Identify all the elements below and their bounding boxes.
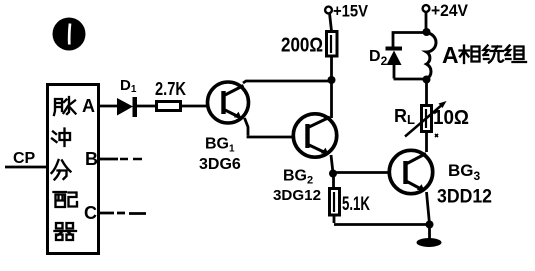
svg-text:B: B	[85, 149, 98, 169]
node: BG2 emitter junction	[329, 170, 337, 178]
+24V terminal	[423, 5, 430, 12]
svg-text:3DD12: 3DD12	[437, 187, 492, 208]
wire C output (dashed)	[99, 212, 146, 215]
char 脉	[54, 97, 76, 115]
diode D2 (flyback)	[386, 47, 403, 51]
wire A output to diode	[99, 105, 118, 108]
svg-text:10Ω: 10Ω	[433, 107, 469, 129]
transistor BG2	[293, 114, 336, 157]
svg-text:2.7K: 2.7K	[155, 79, 186, 99]
diode D1	[117, 98, 133, 116]
svg-text:BG3: BG3	[448, 161, 481, 183]
figure number badge (1)	[53, 18, 86, 51]
svg-text:D2: D2	[369, 48, 388, 68]
wire BG1 emitter to BG2 base	[245, 118, 296, 137]
junction mark	[435, 134, 438, 137]
svg-text:A: A	[82, 96, 95, 116]
svg-text:RL: RL	[394, 106, 415, 127]
char 相	[460, 46, 480, 64]
node: winding bottom	[423, 76, 431, 84]
svg-text:D1: D1	[120, 77, 137, 95]
wire terminal to 200ohm	[330, 13, 332, 31]
wire terminal to node	[425, 12, 428, 29]
svg-text:CP: CP	[13, 150, 36, 167]
resistor R 2.7K	[157, 102, 181, 111]
svg-text:+24V: +24V	[431, 1, 469, 20]
wire node to RL	[425, 80, 428, 106]
svg-text:3DG12: 3DG12	[273, 187, 321, 204]
wire node to BG3 base	[333, 171, 390, 174]
wire RL to BG3 collector	[425, 132, 428, 152]
wire 5.1K to ground rail	[334, 215, 430, 225]
svg-text:200Ω: 200Ω	[281, 35, 323, 57]
resistor RL (adjustable)	[422, 106, 432, 132]
CP input wire	[5, 166, 47, 169]
char 组	[506, 46, 527, 63]
wire node to ground	[428, 225, 431, 240]
svg-text:A: A	[442, 42, 459, 68]
wire diode to resistor	[137, 105, 156, 108]
char 器	[55, 223, 77, 240]
wire node to D2 branch	[393, 33, 427, 48]
wire D2 to winding bottom node	[394, 65, 427, 79]
wire 200ohm to node	[330, 56, 333, 80]
wire B output (dashed)	[99, 158, 118, 161]
+15V terminal	[325, 7, 332, 14]
node: ground junction	[426, 221, 434, 229]
wire BG2 emitter down to node	[331, 155, 333, 173]
svg-text:BG1: BG1	[205, 136, 235, 155]
inductor A-phase winding	[427, 33, 437, 79]
pulse distributor box 脉冲分配器	[48, 85, 99, 254]
transistor BG1	[208, 82, 249, 123]
resistor 5.1K	[330, 189, 340, 216]
char 冲	[52, 129, 70, 147]
svg-text:BG2: BG2	[283, 168, 313, 187]
RL arrow	[405, 104, 443, 137]
wire BG1 collector to node (y=81)	[243, 81, 332, 83]
transistor BG3	[389, 150, 432, 193]
char 分	[52, 160, 71, 180]
wire resistor to BG1 base	[181, 105, 207, 108]
svg-text:3DG6: 3DG6	[199, 156, 241, 173]
node: collector junction	[328, 76, 336, 84]
svg-text:C: C	[84, 203, 97, 223]
svg-text:5.1K: 5.1K	[342, 194, 370, 215]
resistor 200ohm	[327, 32, 338, 57]
node: winding top	[423, 28, 431, 36]
svg-text:+15V: +15V	[333, 2, 369, 21]
char 绕	[484, 46, 504, 63]
wire node down to 5.1K	[332, 174, 335, 189]
char 配	[54, 192, 78, 207]
ground	[417, 238, 442, 247]
wire node down to BG2 collector	[330, 80, 333, 118]
wire BG3 emitter to ground node	[427, 192, 430, 224]
